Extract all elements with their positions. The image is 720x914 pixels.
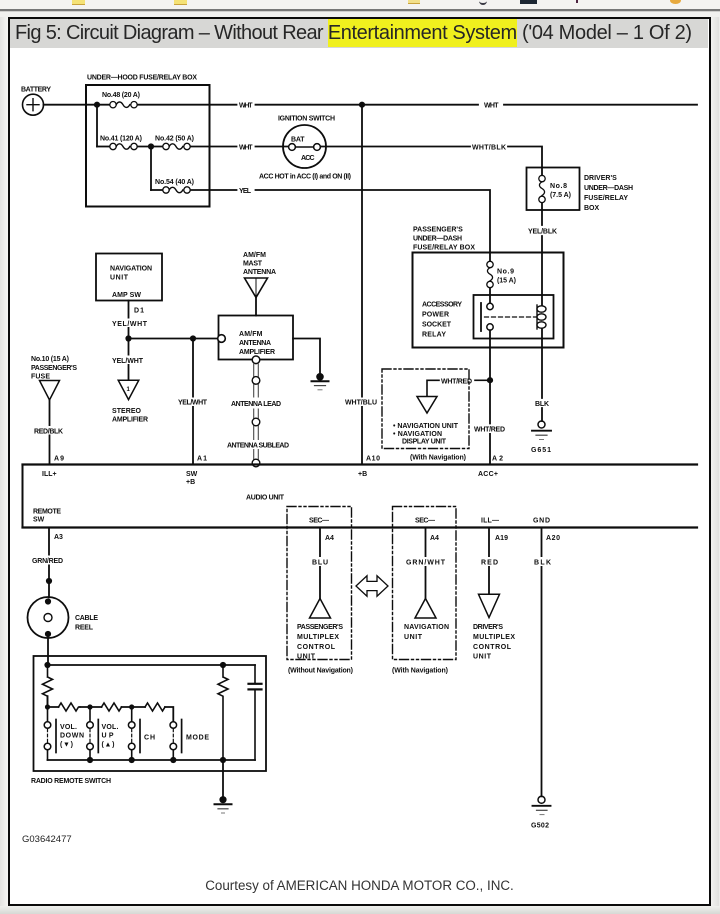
svg-text:UNIT: UNIT — [404, 634, 423, 641]
svg-text:ACCESSORY: ACCESSORY — [422, 302, 462, 309]
svg-text:G03642477: G03642477 — [22, 834, 72, 845]
svg-text:WHT/BLU: WHT/BLU — [345, 400, 377, 407]
svg-text:WHT/RED: WHT/RED — [441, 379, 472, 386]
fuse No.42 (50 A) — [155, 136, 194, 150]
wire BLU A4 — [319, 528, 321, 599]
svg-text:YEL/WHT: YEL/WHT — [112, 321, 148, 328]
wire BLK to G651 — [541, 348, 543, 422]
wire row1 drop — [96, 105, 98, 147]
svg-text:ANTENNA: ANTENNA — [239, 340, 271, 347]
stereo amplifier triangle — [112, 380, 148, 423]
svg-text:No.8: No.8 — [550, 183, 567, 190]
wire to stereo amplifier — [128, 339, 130, 380]
svg-text:PASSENGER'S: PASSENGER'S — [31, 365, 77, 372]
svg-text:MAST: MAST — [243, 261, 263, 268]
toolbar icon purple tick — [576, 0, 578, 3]
svg-text:AUDIO UNIT: AUDIO UNIT — [246, 495, 285, 502]
node amp sw split — [125, 335, 131, 341]
svg-text:WHT: WHT — [484, 103, 499, 110]
svg-text:(▼): (▼) — [60, 742, 73, 749]
wire WHT/BLU A10 — [361, 105, 363, 465]
label antenna sublead — [226, 440, 292, 449]
svg-text:ANTENNA SUBLEAD: ANTENNA SUBLEAD — [227, 443, 289, 450]
wire top rail — [48, 664, 256, 666]
svg-text:WHT/BLK: WHT/BLK — [472, 145, 506, 152]
node battery feed — [94, 102, 100, 108]
svg-text:(With Navigation): (With Navigation) — [392, 668, 448, 675]
ignition switch — [259, 116, 351, 181]
ground G502 — [531, 796, 551, 829]
resistor R4 — [145, 703, 165, 711]
svg-text:BLK: BLK — [534, 560, 551, 567]
svg-text:SEC—: SEC— — [309, 518, 329, 525]
without-navigation dash box — [287, 507, 352, 660]
wire row3 drop — [150, 147, 152, 191]
ground (antenna amplifier) — [312, 373, 329, 390]
wire WHT/BLK — [320, 147, 542, 168]
switch SW4 MODE — [170, 720, 209, 761]
svg-text:ACC HOT in ACC (I) and ON (II): ACC HOT in ACC (I) and ON (II) — [259, 174, 351, 181]
resistor R3 — [102, 703, 122, 711]
wire YEL/BLK — [541, 210, 543, 253]
wire battery to box — [44, 104, 110, 106]
svg-text:G502: G502 — [531, 823, 549, 830]
svg-text:+B: +B — [186, 479, 195, 486]
with-navigation dash box — [382, 369, 487, 462]
svg-text:FUSE: FUSE — [31, 374, 50, 381]
svg-text:D1: D1 — [134, 308, 144, 315]
svg-text:ANTENNA: ANTENNA — [243, 269, 276, 276]
svg-text:A2: A2 — [492, 456, 503, 463]
svg-text:NAVIGATION: NAVIGATION — [404, 624, 449, 631]
svg-text:UNDER—HOOD FUSE/RELAY BOX: UNDER—HOOD FUSE/RELAY BOX — [87, 75, 197, 82]
svg-text:G651: G651 — [531, 447, 551, 454]
toolbar icon folder 3 — [408, 0, 420, 4]
svg-text:AM/FM: AM/FM — [243, 252, 266, 259]
svg-text:No.42 (50 A): No.42 (50 A) — [155, 136, 194, 143]
wire amplifier ground — [293, 339, 320, 374]
svg-text:No.9: No.9 — [497, 269, 514, 276]
wire A2 WHT/RED — [489, 348, 491, 465]
ladder rail with resistors — [48, 696, 59, 707]
node sw1 — [45, 704, 50, 709]
wire BLK A20 to G502 — [541, 528, 543, 797]
svg-text:UNDER—DASH: UNDER—DASH — [413, 236, 462, 243]
svg-text:BLK: BLK — [535, 401, 549, 408]
svg-text:SW: SW — [33, 517, 45, 524]
capacitor C1 — [249, 665, 262, 760]
relay coil — [541, 253, 543, 348]
ground (radio remote switch) — [215, 796, 232, 813]
svg-text:MODE: MODE — [186, 735, 209, 742]
switch SW3 CH — [128, 707, 155, 760]
resistor R2 — [59, 703, 81, 711]
svg-text:RED/BLK: RED/BLK — [34, 429, 63, 436]
toolbar icon folder 2 — [174, 0, 187, 5]
resistor R1 (left) — [43, 665, 53, 707]
svg-text:No.10 (15 A): No.10 (15 A) — [31, 356, 69, 363]
radio remote switch box — [34, 656, 267, 771]
pin amp-sw input — [218, 335, 226, 343]
svg-text:+B: +B — [358, 471, 367, 478]
wire GRN/WHT A4 — [425, 528, 427, 599]
svg-text:DISPLAY UNIT: DISPLAY UNIT — [402, 439, 447, 446]
bidirectional arrow — [356, 576, 388, 596]
bottom rail — [48, 759, 256, 761]
coax connector 2 — [252, 418, 260, 426]
passenger's multiplex control unit triangle — [310, 599, 331, 619]
svg-text:YEL: YEL — [239, 188, 252, 195]
svg-text:PASSENGER'S: PASSENGER'S — [297, 624, 343, 631]
svg-text:ANTENNA LEAD: ANTENNA LEAD — [231, 401, 281, 408]
svg-text:NAVIGATION: NAVIGATION — [110, 266, 152, 273]
svg-text:A3: A3 — [54, 534, 63, 541]
svg-text:A20: A20 — [546, 535, 560, 542]
wire RED A19 — [488, 528, 490, 595]
svg-text:MULTIPLEX: MULTIPLEX — [473, 634, 515, 641]
svg-text:GRN/RED: GRN/RED — [32, 558, 63, 565]
svg-text:No.41 (120 A): No.41 (120 A) — [100, 136, 142, 143]
svg-text:BAT: BAT — [291, 137, 305, 144]
svg-text:WHT: WHT — [239, 103, 253, 110]
svg-text:WHT: WHT — [239, 145, 253, 152]
wire amp sw to antenna amplifier — [129, 338, 219, 340]
svg-text:A1: A1 — [197, 456, 207, 463]
toolbar icon navy — [520, 0, 537, 4]
accessory power socket relay — [422, 253, 554, 348]
toolbar icon glyph — [479, 0, 487, 5]
node cable reel feed — [46, 578, 52, 584]
fuse No.9 (15 A) — [487, 253, 516, 304]
switch SW1 VOL DOWN — [44, 707, 84, 760]
wire WHT row2 to ignition — [191, 146, 289, 148]
coax connector 3 — [252, 459, 260, 467]
svg-text:CABLE: CABLE — [75, 615, 98, 622]
antenna lead coax — [254, 364, 259, 459]
svg-text:BOX: BOX — [584, 205, 600, 212]
svg-text:A4: A4 — [325, 535, 334, 542]
audio unit box — [23, 465, 698, 528]
with-navigation dash box (SEC) — [393, 507, 457, 660]
wire to ground — [222, 760, 224, 797]
svg-text:VOL.: VOL. — [102, 724, 119, 731]
svg-text:RELAY: RELAY — [422, 332, 446, 339]
svg-text:YEL/WHT: YEL/WHT — [178, 400, 208, 407]
svg-text:REEL: REEL — [75, 625, 94, 632]
svg-text:• NAVIGATION: • NAVIGATION — [393, 431, 442, 438]
wire YEL — [191, 190, 490, 253]
svg-text:UP: UP — [102, 733, 114, 740]
wire reel to switch box — [47, 638, 49, 665]
svg-text:BLU: BLU — [312, 560, 328, 567]
node row2 tap — [148, 143, 154, 149]
svg-text:YEL/WHT: YEL/WHT — [112, 358, 144, 365]
fuse No.48 (20 A) — [102, 92, 140, 108]
svg-text:UNIT: UNIT — [297, 654, 316, 661]
coax connector 1 — [252, 377, 260, 385]
fuse No.8 (7.5 A) — [539, 168, 571, 211]
driver's multiplex control unit triangle — [479, 594, 500, 617]
ground G651 — [531, 421, 551, 454]
label antenna lead — [230, 399, 283, 408]
AM/FM mast antenna — [243, 252, 276, 316]
audio unit pin labels bottom nets — [54, 518, 560, 543]
svg-text:1: 1 — [127, 387, 131, 393]
svg-text:SEC—: SEC— — [415, 518, 435, 525]
node A1 tap — [190, 335, 196, 341]
svg-text:A10: A10 — [366, 456, 380, 463]
navigation unit box — [96, 254, 162, 301]
node sw2 — [87, 704, 92, 709]
svg-text:YEL/BLK: YEL/BLK — [528, 229, 557, 236]
passenger's under-dash fuse/relay box — [413, 253, 564, 348]
svg-text:UNDER—DASH: UNDER—DASH — [584, 185, 633, 192]
fuse No.54 (40 A) — [155, 179, 194, 193]
cable reel — [28, 597, 99, 638]
wire row3 start — [151, 189, 162, 191]
svg-text:GND: GND — [533, 518, 550, 525]
pin antenna lead output — [252, 356, 260, 364]
svg-text:No.54 (40 A): No.54 (40 A) — [155, 179, 194, 186]
svg-text:REMOTE: REMOTE — [33, 509, 61, 516]
wire row2 start — [97, 146, 109, 148]
svg-text:BATTERY: BATTERY — [21, 87, 51, 94]
svg-text:CH: CH — [144, 735, 155, 742]
svg-text:STEREO: STEREO — [112, 408, 142, 415]
svg-text:(15 A): (15 A) — [497, 278, 516, 285]
svg-text:CONTROL: CONTROL — [297, 644, 336, 651]
svg-text:IGNITION SWITCH: IGNITION SWITCH — [278, 116, 335, 123]
node WHT/RED tap — [487, 377, 493, 383]
svg-text:UNIT: UNIT — [110, 275, 129, 282]
svg-text:RADIO REMOTE SWITCH: RADIO REMOTE SWITCH — [31, 778, 111, 785]
svg-text:FUSE/RELAY: FUSE/RELAY — [584, 195, 628, 202]
svg-text:AMPLIFIER: AMPLIFIER — [239, 349, 275, 356]
node sw3 — [129, 704, 134, 709]
svg-text:(Without Navigation): (Without Navigation) — [288, 668, 353, 675]
svg-text:ACC: ACC — [301, 155, 315, 162]
wire GRN/RED A3 — [48, 528, 50, 598]
svg-text:RED: RED — [481, 560, 498, 567]
svg-text:• NAVIGATION UNIT: • NAVIGATION UNIT — [393, 423, 459, 430]
AM/FM antenna amplifier U1 — [218, 316, 293, 364]
svg-text:No.48 (20 A): No.48 (20 A) — [102, 92, 140, 99]
svg-text:AMPLIFIER: AMPLIFIER — [112, 417, 148, 424]
svg-text:CONTROL: CONTROL — [473, 644, 512, 651]
wire whtred link — [475, 379, 487, 381]
navigation display unit triangle — [417, 397, 437, 414]
wire A1 YEL/WHT — [192, 339, 194, 465]
svg-text:A19: A19 — [495, 535, 508, 542]
svg-text:DOWN: DOWN — [60, 733, 84, 740]
battery — [21, 87, 51, 116]
svg-text:PASSENGER'S: PASSENGER'S — [413, 227, 463, 234]
wire WHT row1 — [210, 104, 698, 106]
svg-text:SW: SW — [186, 471, 198, 478]
svg-text:MULTIPLEX: MULTIPLEX — [297, 634, 339, 641]
svg-text:ILL+: ILL+ — [42, 471, 57, 478]
svg-text:DRIVER'S: DRIVER'S — [584, 175, 617, 182]
svg-text:ILL—: ILL— — [481, 518, 499, 525]
svg-text:A9: A9 — [54, 456, 64, 463]
resistor R5 (right) — [218, 665, 228, 760]
wire fuse48 to box edge — [138, 104, 210, 106]
wire RED/BLK A9 — [49, 400, 51, 465]
svg-text:Courtesy of AMERICAN HONDA MOT: Courtesy of AMERICAN HONDA MOTOR CO., IN… — [205, 878, 514, 893]
svg-text:VOL.: VOL. — [60, 724, 77, 731]
node WHT/BLU tap — [359, 102, 365, 108]
svg-text:AM/FM: AM/FM — [239, 331, 263, 338]
toolbar icon orange ball — [670, 0, 681, 4]
svg-text:(7.5 A): (7.5 A) — [550, 192, 571, 199]
svg-text:ACC+: ACC+ — [478, 471, 498, 478]
svg-text:A4: A4 — [430, 535, 439, 542]
switch SW2 VOL UP — [87, 707, 119, 760]
wire D1 YEL/WHT — [128, 301, 130, 337]
wire between fuses row2 — [138, 146, 163, 148]
toolbar icon folder 1 — [72, 0, 85, 5]
svg-text:DRIVER'S: DRIVER'S — [473, 624, 503, 631]
svg-text:SOCKET: SOCKET — [422, 322, 452, 329]
passenger's fuse No.10 — [31, 356, 77, 400]
svg-text:POWER: POWER — [422, 312, 449, 319]
driver's under-dash fuse/relay box — [527, 168, 580, 211]
svg-text:UNIT: UNIT — [473, 654, 492, 661]
svg-text:(With Navigation): (With Navigation) — [410, 455, 466, 462]
svg-text:(▲): (▲) — [102, 742, 115, 749]
svg-text:GRN/WHT: GRN/WHT — [406, 560, 446, 567]
under-hood fuse/relay box — [86, 85, 210, 207]
fuse No.41 (120 A) — [100, 136, 142, 150]
svg-text:FUSE/RELAY BOX: FUSE/RELAY BOX — [413, 245, 475, 252]
svg-text:WHT/RED: WHT/RED — [474, 427, 505, 434]
navigation unit triangle — [415, 599, 436, 619]
audio unit pin labels top — [33, 471, 498, 524]
svg-text:AMP SW: AMP SW — [112, 292, 141, 299]
